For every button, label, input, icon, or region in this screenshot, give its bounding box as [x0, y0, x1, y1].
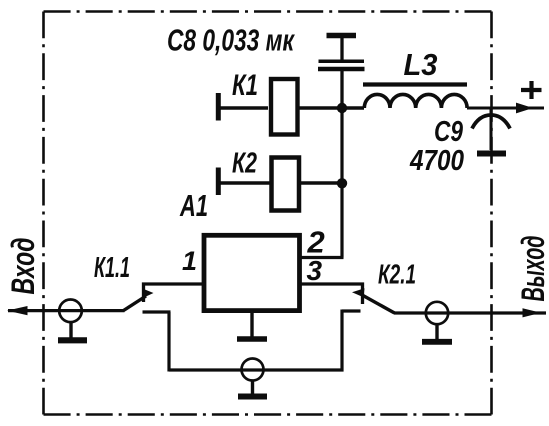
svg-text:С9: С9 [434, 116, 463, 148]
capacitor C9 [409, 108, 510, 177]
svg-text:К2.1: К2.1 [378, 259, 416, 290]
relay coil K2 [218, 148, 342, 211]
svg-text:Выход: Выход [515, 236, 549, 302]
connector center jack [238, 359, 267, 397]
wire switch K1.1 lower contact [143, 310, 171, 313]
wire pin 2 [300, 256, 344, 259]
svg-text:Вход: Вход [5, 238, 41, 295]
switch K1.1 [94, 252, 154, 311]
relay coil K1 [218, 69, 342, 135]
wire bypass left vertical [167, 312, 170, 372]
svg-text:С8 0,033 мк: С8 0,033 мк [167, 23, 295, 58]
wire bypass bottom [169, 368, 344, 371]
svg-text:1: 1 [182, 246, 197, 276]
wire bypass right vertical [340, 310, 343, 372]
power + terminal [521, 81, 542, 99]
connector output jack [422, 302, 452, 342]
svg-text:К1: К1 [232, 69, 258, 102]
ground under A1 [237, 309, 267, 339]
wire bus from C8 to pin 2 [340, 108, 343, 258]
node junction at K1 wire [337, 103, 347, 113]
wire pin 1 [144, 284, 205, 302]
svg-text:L3: L3 [404, 47, 438, 82]
wire from junction to L3 [342, 106, 364, 109]
amplifier A1 [179, 188, 324, 311]
svg-text:4700: 4700 [409, 145, 464, 177]
wire switch K2.1 lower contact [342, 309, 361, 312]
svg-text:К2: К2 [232, 148, 257, 180]
wire pin 3 [300, 284, 363, 304]
svg-text:3: 3 [307, 255, 323, 286]
wire from L3 to + output with arrow [467, 103, 544, 114]
svg-text:К1.1: К1.1 [94, 252, 130, 284]
node Выход output arrow [394, 236, 549, 318]
switch K2.1 [352, 259, 416, 314]
node junction at K2 wire [337, 178, 347, 188]
node Вход input arrow [5, 238, 125, 316]
svg-text:А1: А1 [179, 188, 208, 223]
capacitor C8 [167, 23, 365, 110]
connector input jack [58, 300, 87, 341]
inductor L3 [363, 47, 467, 108]
